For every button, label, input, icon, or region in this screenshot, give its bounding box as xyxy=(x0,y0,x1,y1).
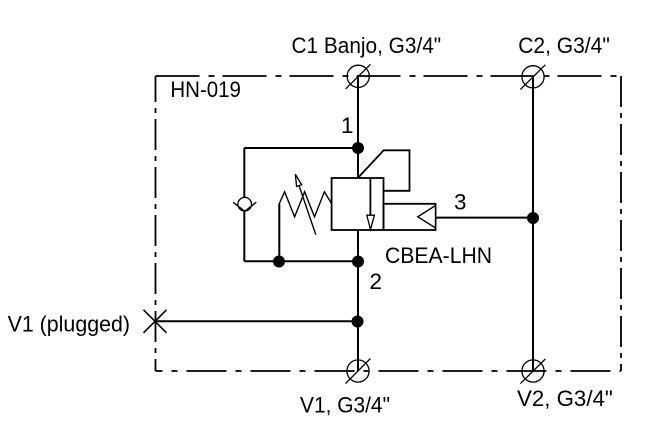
manifold boundary HN-019 (dash-dot border) top edge xyxy=(156,75,622,77)
port C1 symbol xyxy=(346,64,371,89)
wire pilot port 3 to C2 line xyxy=(436,217,534,219)
plugged port V1 (X symbol) xyxy=(144,310,167,333)
manifold boundary bottom edge xyxy=(156,370,622,372)
port C2 symbol xyxy=(520,65,545,90)
svg-text:2: 2 xyxy=(370,269,383,294)
wire C2 port to V2 port xyxy=(532,77,534,371)
wire node 1 to check valve branch xyxy=(244,147,358,149)
adjustable spring xyxy=(279,192,331,217)
spool divider with down arrow xyxy=(367,178,375,230)
node 1 junction dot xyxy=(352,142,364,154)
wire C1 to node 1 to valve body top xyxy=(357,76,359,178)
svg-text:V2, G3/4": V2, G3/4" xyxy=(517,386,613,411)
svg-text:C1 Banjo, G3/4": C1 Banjo, G3/4" xyxy=(292,33,442,58)
svg-text:V1 (plugged): V1 (plugged) xyxy=(8,311,130,336)
check valve xyxy=(233,197,256,211)
adjustment arrow through spring xyxy=(295,174,316,235)
wire check valve upper xyxy=(243,148,245,198)
wire spring branch xyxy=(278,204,280,262)
port V1 symbol xyxy=(346,359,371,384)
valve body (main spool box) xyxy=(332,178,384,230)
svg-text:HN-019: HN-019 xyxy=(170,77,241,102)
svg-text:V1, G3/4": V1, G3/4" xyxy=(300,392,390,417)
pilot box (right, port 3) xyxy=(384,204,436,230)
port V2 symbol xyxy=(520,359,545,384)
wire V1 plug to node xyxy=(155,320,358,322)
svg-text:CBEA-LHN: CBEA-LHN xyxy=(385,243,492,268)
manifold boundary left edge xyxy=(155,76,157,371)
manifold boundary right edge xyxy=(620,76,622,371)
wire check valve lower xyxy=(243,211,245,261)
junction dot V1 plug wire xyxy=(352,316,364,328)
pilot triangle xyxy=(418,206,436,229)
svg-text:1: 1 xyxy=(341,113,354,138)
wire bottom of loop to node 2 xyxy=(244,260,358,262)
pilot flag (upper right) xyxy=(358,150,410,191)
node 3 junction dot on C2 line xyxy=(527,212,539,224)
node 2 junction dot xyxy=(352,256,364,268)
junction dot spring branch xyxy=(273,256,285,268)
svg-text:C2, G3/4": C2, G3/4" xyxy=(518,33,610,58)
svg-text:3: 3 xyxy=(454,190,467,215)
wire valve body bottom through node 2 to V1 port xyxy=(357,230,359,371)
